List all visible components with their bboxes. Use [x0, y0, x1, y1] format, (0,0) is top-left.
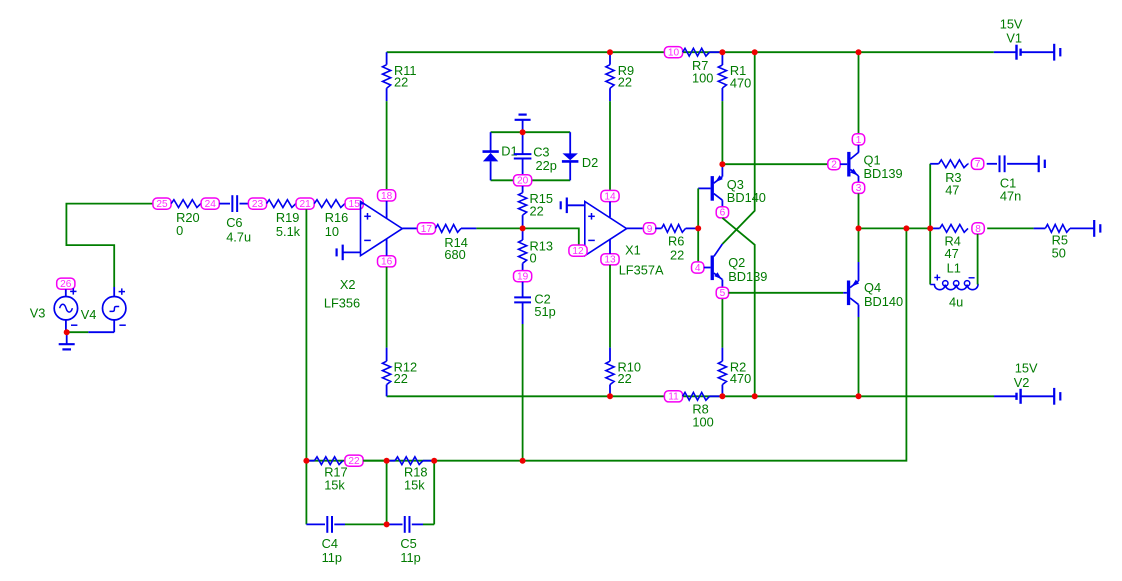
junction clamp top — [520, 129, 526, 135]
wire X2 output — [402, 227, 417, 229]
resistor R18 — [387, 460, 395, 462]
svg-text:16: 16 — [381, 257, 393, 268]
wire R14 to node19 net — [476, 227, 522, 229]
svg-text:5: 5 — [720, 288, 726, 299]
node junction R14/R15/R13 — [520, 225, 526, 231]
pin 16 — [378, 256, 396, 267]
resistor R20 — [171, 200, 201, 208]
svg-text:10: 10 — [668, 48, 680, 59]
node junction top rail crossover — [752, 49, 758, 55]
svg-text:12: 12 — [572, 246, 584, 257]
wire clamp box bottom — [491, 179, 571, 181]
svg-text:C6: C6 — [226, 215, 242, 230]
junction feedback left — [303, 458, 309, 464]
svg-text:LF357A: LF357A — [619, 263, 664, 278]
resistor R10 — [609, 348, 611, 362]
transistor Q2 — [704, 267, 711, 269]
node 9 — [643, 223, 655, 234]
resistor R3 — [930, 163, 939, 165]
svg-text:BD139: BD139 — [864, 166, 903, 181]
transistor Q1 — [847, 152, 850, 177]
node 10 — [664, 47, 682, 58]
svg-text:11p: 11p — [400, 550, 420, 565]
resistor R16 — [314, 200, 345, 208]
svg-text:3: 3 — [856, 183, 862, 194]
resistor R11 — [386, 52, 388, 64]
svg-text:15k: 15k — [324, 478, 345, 493]
node 26 — [57, 278, 75, 289]
svg-text:51p: 51p — [534, 304, 555, 319]
node junction bottom rail Q4 — [856, 393, 862, 399]
wire X1 to pin13 — [609, 239, 611, 254]
wire Q2 collector diagonal — [714, 244, 723, 256]
wire C5 right vertical — [433, 461, 435, 525]
ground at V2 — [1053, 388, 1055, 405]
svg-text:47n: 47n — [1000, 189, 1021, 204]
ground at X2 inverting input — [343, 251, 361, 253]
svg-text:22: 22 — [348, 456, 360, 467]
svg-text:R19: R19 — [276, 210, 299, 225]
resistor R8 — [683, 392, 710, 400]
pin 13 — [601, 254, 619, 265]
wire base rail to node 2 — [722, 163, 828, 165]
capacitor C6 — [219, 203, 230, 205]
svg-text:8: 8 — [975, 224, 981, 235]
wire clamp box top — [491, 131, 571, 133]
svg-text:22: 22 — [530, 203, 544, 218]
node 4 — [692, 262, 704, 273]
svg-text:X1: X1 — [625, 243, 641, 258]
svg-text:5.1k: 5.1k — [276, 224, 301, 239]
wire bottom supply rail — [387, 395, 994, 397]
wire X2 to pin16 — [386, 239, 388, 256]
source V4 — [113, 287, 115, 297]
node 8 — [972, 223, 984, 234]
wire node2 to Q1 base — [840, 163, 847, 165]
svg-text:BD140: BD140 — [727, 190, 766, 205]
svg-text:18: 18 — [381, 191, 393, 202]
svg-text:V3: V3 — [30, 306, 46, 321]
resistor R19 — [267, 200, 296, 208]
junction R1/Q3/Q1 base rail — [719, 161, 725, 167]
svg-text:14: 14 — [604, 191, 616, 202]
junction feedback C2 — [520, 458, 526, 464]
svg-text:11: 11 — [668, 392, 679, 403]
ground at R5 — [1093, 220, 1095, 237]
wire output rail to Q4 emitter — [858, 228, 860, 262]
wire node8 to R5 — [987, 227, 1033, 229]
svg-text:4: 4 — [695, 263, 701, 274]
svg-text:9: 9 — [647, 224, 653, 235]
svg-text:26: 26 — [60, 279, 72, 290]
node 5 — [716, 287, 728, 298]
node 17 — [417, 223, 435, 234]
op-amp X2 — [361, 202, 403, 256]
wire Q2 emitter to node 5 — [721, 280, 723, 287]
svg-text:680: 680 — [444, 247, 465, 262]
svg-text:7: 7 — [975, 159, 981, 170]
svg-text:Q2: Q2 — [728, 255, 745, 270]
svg-text:11p: 11p — [322, 550, 342, 565]
svg-text:0: 0 — [530, 251, 537, 266]
svg-text:D1: D1 — [501, 144, 517, 159]
pin 18 — [378, 190, 396, 201]
node 21 — [296, 198, 314, 209]
wire top supply rail — [387, 51, 994, 53]
wire Q4 collector down to bottom rail — [858, 305, 860, 317]
wire R9 to pin 14 — [609, 101, 611, 190]
svg-text:470: 470 — [730, 76, 751, 91]
wire base vertical lower — [697, 228, 699, 262]
svg-text:2: 2 — [831, 160, 837, 171]
capacitor C2 — [522, 282, 524, 297]
node 20 — [514, 175, 532, 186]
junction output Q1/Q4 — [856, 225, 862, 231]
resistor R4 — [930, 227, 940, 229]
node 6 — [716, 207, 728, 218]
ground at V1 — [1053, 44, 1055, 61]
svg-text:22p: 22p — [536, 158, 557, 173]
capacitor C3 — [522, 132, 524, 154]
wire Q3 base — [698, 187, 710, 189]
svg-text:R16: R16 — [325, 210, 348, 225]
svg-text:Q4: Q4 — [864, 280, 881, 295]
resistor R1 — [721, 52, 723, 65]
node 11 — [664, 391, 682, 402]
node junction bottom rail R2 — [719, 393, 725, 399]
svg-text:4.7u: 4.7u — [226, 230, 251, 245]
wire Q1 emitter to node 3 — [858, 176, 860, 182]
resistor R12 — [386, 348, 388, 362]
svg-text:BD140: BD140 — [864, 294, 903, 309]
node junction bottom rail crossover — [752, 393, 758, 399]
wire pin13 to R10 — [609, 265, 611, 348]
battery V1 — [994, 51, 1017, 53]
wire output rail — [859, 227, 931, 229]
junction output feedback — [903, 225, 909, 231]
ground at X1 non-inverting input — [567, 204, 585, 206]
junction C4C5 — [384, 521, 390, 527]
svg-text:C5: C5 — [400, 536, 416, 551]
wire node5 to Q4 base — [729, 292, 844, 294]
wire to X1 inverting input — [523, 228, 579, 245]
wire up to R3 — [929, 164, 931, 229]
wire R1 to Q3 emitter junction — [721, 101, 723, 164]
svg-text:22: 22 — [618, 371, 632, 386]
svg-text:23: 23 — [252, 199, 264, 210]
node 7 — [971, 158, 983, 169]
node 15 — [345, 198, 363, 209]
svg-text:BD139: BD139 — [728, 269, 767, 284]
wire C4 left vertical — [305, 461, 307, 525]
svg-text:47: 47 — [945, 246, 959, 261]
svg-text:L1: L1 — [947, 261, 961, 276]
ground above clamp (flipped) — [522, 120, 524, 132]
svg-text:470: 470 — [730, 371, 751, 386]
junction output R4/L1/R3 — [927, 225, 933, 231]
junction R6 to bases — [695, 225, 701, 231]
capacitor C5 — [387, 523, 403, 525]
svg-text:LF356: LF356 — [324, 295, 360, 310]
node junction top rail R9 — [607, 49, 613, 55]
svg-text:20: 20 — [517, 176, 529, 187]
svg-text:4u: 4u — [949, 295, 963, 310]
resistor R17 — [306, 460, 314, 462]
ground at V3 — [66, 332, 68, 344]
junction V3 V4 ground — [64, 329, 70, 335]
wire node1 to Q1 collector — [858, 145, 860, 153]
transistor Q4 — [847, 281, 850, 306]
transistor Q3 — [721, 164, 723, 176]
resistor R2 — [721, 385, 723, 397]
wire pin14 to X1 — [609, 202, 611, 218]
battery V2 — [994, 395, 1017, 397]
wire R11 to pin 18 — [386, 101, 388, 190]
node 2 — [828, 159, 840, 170]
svg-text:0: 0 — [176, 223, 183, 238]
resistor R6 — [655, 227, 661, 229]
inductor L1 — [929, 228, 931, 284]
pin 14 — [601, 190, 619, 201]
svg-text:6: 6 — [720, 208, 726, 219]
svg-text:21: 21 — [299, 199, 311, 210]
wire feedback rail — [306, 460, 522, 462]
svg-text:1: 1 — [856, 135, 862, 146]
svg-text:V2: V2 — [1014, 375, 1030, 390]
wire top rail to node 1 — [858, 52, 860, 134]
node junction top rail Q1 — [856, 49, 862, 55]
capacitor C4 — [306, 523, 325, 525]
wire node21 down to feedback rail — [305, 209, 307, 460]
wire Q3 collector to node 6 — [721, 200, 723, 207]
svg-text:D2: D2 — [582, 155, 598, 170]
svg-text:22: 22 — [394, 371, 408, 386]
node 25 — [153, 198, 171, 209]
svg-text:13: 13 — [604, 255, 616, 266]
resistor R9 — [609, 52, 611, 64]
node 22 — [345, 455, 363, 466]
wire crossover upper vertical to Q2 collector — [722, 52, 754, 244]
source V3 — [65, 289, 67, 296]
svg-text:17: 17 — [421, 224, 433, 235]
wire pin18 to X2 — [386, 201, 388, 218]
wire input from node 25 to V4 — [66, 204, 152, 287]
wire crossover node6 to lower vertical — [722, 218, 754, 396]
resistor R7 — [683, 48, 710, 56]
resistor R5 — [1034, 227, 1046, 229]
wire V4 minus to ground junction — [88, 331, 114, 333]
wire R2 up to node 5 — [721, 298, 723, 347]
capacitor C1 — [987, 163, 997, 165]
node junction top rail R1 — [719, 49, 725, 55]
diode D1 — [490, 132, 492, 151]
svg-text:22: 22 — [394, 75, 408, 90]
svg-text:50: 50 — [1052, 245, 1066, 260]
svg-text:25: 25 — [156, 199, 168, 210]
node 19 — [514, 271, 532, 282]
svg-text:100: 100 — [692, 70, 713, 85]
svg-text:22: 22 — [670, 247, 684, 262]
wire C4C5 mid vertical — [386, 461, 388, 525]
svg-text:100: 100 — [692, 415, 713, 430]
svg-text:15V: 15V — [1015, 361, 1038, 376]
wire feedback vertical from output — [523, 228, 907, 460]
wire X1 output — [627, 227, 643, 229]
op-amp X1 — [585, 202, 627, 256]
svg-text:C4: C4 — [322, 536, 338, 551]
node junction bottom rail R10 — [607, 393, 613, 399]
junction feedback mid — [384, 458, 390, 464]
diode D2 — [569, 132, 571, 153]
node 3 — [852, 182, 864, 193]
svg-text:47: 47 — [945, 183, 959, 198]
resistor R14 — [436, 225, 462, 233]
node 1 — [852, 134, 864, 145]
svg-text:15V: 15V — [1000, 16, 1023, 31]
node 24 — [201, 198, 219, 209]
wire base vertical upper — [697, 188, 699, 228]
svg-text:15: 15 — [349, 199, 361, 210]
svg-text:19: 19 — [517, 272, 529, 283]
wire node15 to X2 — [361, 203, 364, 205]
wire node3 to output rail — [858, 193, 860, 228]
wire node22 to junction — [363, 460, 387, 462]
svg-text:V1: V1 — [1006, 31, 1022, 46]
svg-text:V4: V4 — [81, 307, 97, 322]
node 12 — [569, 245, 587, 256]
svg-text:10: 10 — [325, 224, 339, 239]
wire pin16 to R12 — [386, 267, 388, 348]
svg-text:24: 24 — [205, 199, 217, 210]
svg-text:15k: 15k — [404, 478, 425, 493]
svg-text:X2: X2 — [340, 277, 356, 292]
wire Q4 base lead — [843, 292, 847, 294]
svg-text:22: 22 — [618, 75, 632, 90]
svg-text:R6: R6 — [668, 233, 684, 248]
wire C2 down to feedback rail — [522, 324, 524, 461]
junction feedback right — [431, 458, 437, 464]
node 23 — [248, 198, 266, 209]
resistor R15 — [522, 186, 524, 193]
resistor R13 — [522, 228, 524, 240]
ground at C1 — [1038, 155, 1040, 172]
